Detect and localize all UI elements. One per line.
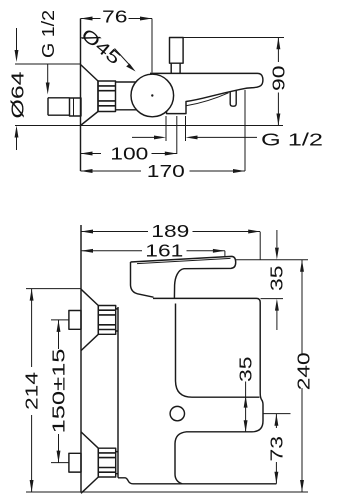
top escutcheon (81, 289, 98, 350)
body bottom step (118, 478, 133, 484)
svg-text:73: 73 (267, 436, 287, 462)
spout left edge upper (176, 304, 260, 398)
svg-text:161: 161 (145, 240, 183, 260)
dimension 150±15 (51, 320, 69, 463)
svg-text:76: 76 (102, 7, 128, 27)
top connector (116, 309, 119, 331)
bottom knurled nut (98, 448, 115, 477)
svg-text:170: 170 (147, 161, 185, 181)
dimension 189 (81, 232, 260, 260)
bottom escutcheon (81, 432, 98, 493)
wall line (bottom drawing) (80, 225, 82, 492)
dimension 214 (26, 289, 81, 492)
svg-text:G 1/2: G 1/2 (261, 130, 323, 150)
lever handle (plan) (131, 256, 236, 298)
G 1/2 leader (left) (47, 64, 49, 88)
spout body outline (150, 73, 263, 113)
bottom inlet stub (69, 453, 81, 472)
svg-text:214: 214 (22, 372, 42, 410)
outlet axis extension line (263, 413, 291, 415)
bottom connector (116, 452, 119, 474)
spout bottom line (133, 483, 276, 485)
svg-text:35: 35 (267, 266, 287, 292)
dimension G 1/2 (bottom outlet) (132, 136, 257, 138)
body top and spout outline (153, 298, 263, 483)
top knurled nut (98, 306, 115, 335)
handle far edge line (137, 258, 231, 263)
connector cylinder (116, 82, 137, 110)
dimension Ø64 (15, 28, 81, 150)
handle circle Ø45 (131, 74, 174, 117)
dimension 35 (upper right) (276, 230, 278, 248)
extension line (escutcheon bottom / 90 bottom) (15, 125, 283, 127)
handle center dot (151, 94, 153, 96)
wall line (80, 19, 82, 172)
svg-text:90: 90 (269, 65, 289, 91)
supply pipe G1/2 (48, 98, 70, 115)
knurled nut (98, 81, 116, 112)
wall coupling stub (70, 98, 82, 116)
svg-text:Ø64: Ø64 (8, 71, 28, 118)
body top extension line (261, 298, 284, 300)
spout inner lower line (186, 93, 229, 106)
bottom extension line (26, 491, 308, 493)
dimension 90 (183, 38, 284, 126)
diverter circle (170, 406, 184, 420)
aerator tab (230, 90, 236, 106)
shower outlet extension lines (166, 90, 245, 171)
dimension 100 (81, 153, 177, 155)
svg-text:189: 189 (151, 221, 189, 241)
handle left edge and base (131, 262, 154, 297)
dimension 73 (275, 414, 277, 484)
svg-text:G 1/2: G 1/2 (38, 10, 58, 58)
svg-text:35: 35 (236, 357, 256, 383)
svg-text:150±15: 150±15 (49, 349, 69, 434)
dimension 76 (81, 19, 153, 73)
dimension 161 (81, 251, 225, 256)
escutcheon cone (81, 65, 99, 126)
body left edge (117, 307, 119, 478)
top inlet stub (69, 311, 81, 330)
svg-text:100: 100 (110, 144, 148, 164)
diverter rod (171, 63, 180, 73)
handle edge extension line (236, 259, 308, 261)
dimension 170 (81, 170, 246, 172)
dimension 240 (301, 260, 303, 492)
svg-text:240: 240 (293, 352, 313, 390)
dimension 35 (spout width) (245, 382, 247, 398)
diverter knob (170, 38, 184, 64)
dimension Ø45 leader (115, 49, 131, 67)
